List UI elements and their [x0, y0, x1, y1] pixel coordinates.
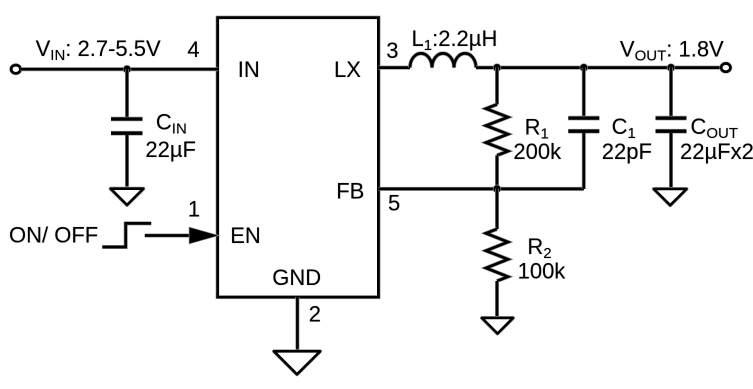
EN arrow wire	[145, 234, 192, 238]
svg-text:22pF: 22pF	[602, 139, 652, 164]
logic step symbol	[102, 223, 151, 247]
wire: COUT to ground	[669, 133, 673, 189]
svg-text:EN: EN	[230, 223, 261, 248]
svg-text:2: 2	[309, 302, 321, 327]
wire: R2 to ground	[495, 281, 499, 318]
op-amp U1 (regulator IC body)	[218, 18, 379, 297]
svg-text:4: 4	[187, 37, 199, 62]
svg-text:LX: LX	[334, 57, 361, 82]
wire: FB pin to C1 bottom	[378, 187, 583, 191]
wire: junction down to CIN	[125, 69, 129, 117]
EN arrowhead	[189, 228, 217, 244]
wire: input terminal to IN pin	[20, 67, 218, 71]
wire: LX pin to inductor	[378, 66, 410, 70]
svg-text:FB: FB	[336, 179, 364, 204]
node: VIN junction	[123, 65, 132, 74]
ground (GND)	[274, 351, 320, 374]
ground (R2)	[482, 318, 513, 334]
svg-text:3: 3	[386, 38, 398, 63]
svg-text:ON/ OFF: ON/ OFF	[9, 222, 98, 247]
ground (CIN)	[111, 189, 144, 205]
resistor R1	[486, 104, 508, 155]
wire: CIN to ground	[125, 135, 129, 187]
ground (COUT)	[654, 189, 687, 205]
capacitor CIN	[111, 117, 143, 122]
svg-text:22µF: 22µF	[145, 137, 196, 162]
output terminal	[721, 64, 730, 72]
svg-text:1: 1	[188, 197, 200, 222]
svg-text:IN: IN	[238, 57, 260, 82]
node: LX-R1 junction	[493, 63, 502, 72]
capacitor COUT	[656, 116, 687, 121]
node: C1 top junction	[580, 63, 589, 72]
svg-text:5: 5	[388, 190, 400, 215]
wire: GND pin down	[295, 297, 299, 351]
node: VOUT junction	[667, 63, 676, 72]
svg-text:GND: GND	[272, 265, 321, 290]
wire: inductor to output terminal	[476, 66, 722, 70]
inductor L1	[410, 53, 476, 67]
wire: C1 bottom to FB wire	[582, 133, 586, 189]
wire: FB junction down to R2	[495, 189, 499, 229]
capacitor C1	[568, 116, 599, 121]
svg-text:100k: 100k	[518, 258, 567, 283]
resistor R2	[486, 229, 508, 281]
wire: junction down to R1	[495, 68, 499, 105]
capacitor COUT top wire	[669, 68, 673, 117]
capacitor C1 top wire	[582, 68, 586, 117]
wire: R1 bottom to FB wire	[495, 155, 499, 189]
node: FB junction	[493, 185, 502, 194]
input terminal	[11, 65, 20, 73]
svg-text:200k: 200k	[513, 139, 562, 164]
svg-text:22µFx2: 22µFx2	[680, 139, 753, 164]
